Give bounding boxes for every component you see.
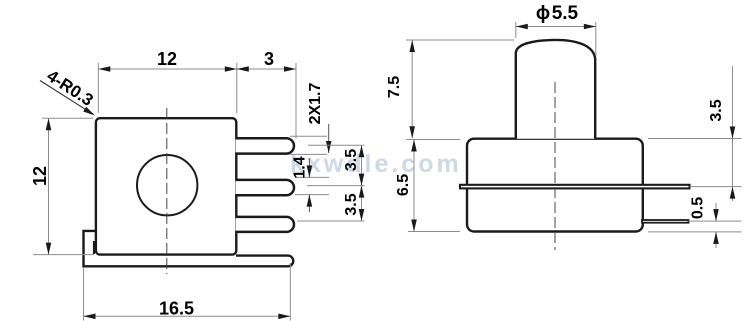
svg-text:3.5: 3.5 <box>708 99 725 121</box>
svg-text:0.5: 0.5 <box>690 197 707 219</box>
dimension 1.4 arrows <box>307 158 313 212</box>
svg-text:3.5: 3.5 <box>343 149 360 171</box>
body (right view) <box>467 139 643 232</box>
dimension 16.5 extension lines <box>84 263 291 321</box>
dimension 6.5 line with arrows <box>411 140 417 232</box>
svg-text:1.4: 1.4 <box>292 156 309 178</box>
dimension 7.5 extension line <box>406 39 514 41</box>
centerline vertical (right view) <box>554 82 556 250</box>
svg-text:3: 3 <box>264 49 274 69</box>
dimension 3.5 / 3.5 vertical line with arrows <box>359 145 365 221</box>
dimension text 7.5 (rotated) <box>386 76 403 98</box>
svg-text:7.5: 7.5 <box>386 76 403 98</box>
svg-text:12: 12 <box>157 49 177 69</box>
label 2X1.7 leader <box>326 124 332 153</box>
dimension 6.5 extension lines <box>406 140 460 232</box>
dimension text 12 (left, rotated) <box>30 166 50 186</box>
extension line pin1 bottom <box>290 136 327 154</box>
centerline vertical (left view) <box>166 108 168 274</box>
dimension text 3.5 (upper, rotated) <box>343 149 360 171</box>
dimension text 3.5 (lower, rotated) <box>343 193 360 215</box>
dimension text 16.5 <box>159 299 194 319</box>
dimension text 0.5 (rotated) <box>690 197 707 219</box>
svg-text:3.5: 3.5 <box>343 193 360 215</box>
dimension 16.5 line with arrows <box>84 314 291 320</box>
dimension text 12 (top) <box>157 49 177 69</box>
pin 3 (bottom right) <box>236 217 295 232</box>
dimension phi5.5 extension lines <box>516 22 596 56</box>
button stem <box>516 40 595 139</box>
dimension text 3 (top) <box>264 49 274 69</box>
pin 2 (middle right) <box>236 180 295 195</box>
dimension 3.5 (right) line with arrows <box>730 66 736 201</box>
svg-text:2X1.7: 2X1.7 <box>307 82 324 124</box>
body (left view, 12x12 square) <box>96 118 236 254</box>
dimension 7.5 line with arrows <box>409 40 415 138</box>
mounting bracket / base plate <box>84 231 294 266</box>
pin B (short, lower right) <box>642 220 689 223</box>
svg-text:6.5: 6.5 <box>395 174 412 196</box>
bracket inner tick <box>93 241 95 254</box>
dimension text 3.5 (right, rotated) <box>708 99 725 121</box>
dimension 3 (top) line with arrows <box>237 66 296 72</box>
dimension 3 (top) extension line <box>295 63 297 139</box>
dimension 12 (left) extension lines <box>33 118 94 254</box>
dimension text 1.4 (rotated) <box>292 156 309 178</box>
label 4-R0.3 leader arrow <box>40 81 95 116</box>
button circle <box>137 155 197 215</box>
dimension text 6.5 (rotated) <box>395 174 412 196</box>
dimension text phi5.5 <box>536 3 579 24</box>
extension lines pin centers (3.5 dims) <box>297 145 365 221</box>
label text 4-R0.3 <box>43 66 96 110</box>
dimension 3.5 (right) extension lines <box>648 139 742 187</box>
label text 2X1.7 (rotated) <box>307 82 324 124</box>
pin 1 (top right) <box>236 138 295 153</box>
svg-text:16.5: 16.5 <box>159 299 194 319</box>
svg-text:12: 12 <box>30 166 50 186</box>
dimension 0.5 extension lines <box>648 221 742 232</box>
pin A (long, through body) <box>460 185 690 189</box>
watermark kxwdle.com <box>290 150 462 178</box>
dimension 12 (top) line with arrows <box>98 66 237 72</box>
svg-text:ϕ 5.5: ϕ 5.5 <box>536 3 579 24</box>
dimension 12 (left) line with arrows <box>46 118 52 254</box>
dimension 1.4 extension lines <box>295 177 329 194</box>
dimension 12 (top) extension lines <box>98 63 237 113</box>
dimension 0.5 arrows <box>713 203 719 248</box>
dimension phi5.5 line with arrows <box>516 24 596 30</box>
